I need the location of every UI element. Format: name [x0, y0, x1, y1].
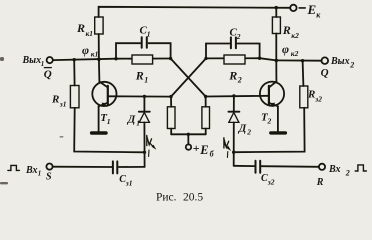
capacitor C2 plates [230, 37, 232, 48]
top supply rail wire [99, 7, 291, 17]
transistor T2 base bar [268, 86, 270, 104]
wire Rz1 bottom to trigger line [74, 108, 144, 153]
svg-text:Рис.: Рис. [156, 192, 177, 204]
svg-text:R: R [316, 177, 324, 188]
pulse symbol input 2 [355, 165, 366, 171]
svg-text:φ: φ [282, 42, 289, 56]
terminal Vh2 [319, 164, 325, 170]
svg-text:з1: з1 [59, 99, 67, 108]
svg-text:2: 2 [345, 169, 350, 178]
svg-text:Вых: Вых [330, 56, 350, 67]
terminal Vh1 [46, 164, 52, 170]
wire D2 anode down to input node [233, 122, 235, 165]
capacitor C1 loop left side [116, 43, 140, 59]
svg-text:E: E [307, 2, 317, 17]
node dot D2 top [232, 94, 235, 97]
resistor Rk2 [272, 17, 280, 34]
resistor Rb2 [205, 97, 207, 107]
capacitor C2 loop right side [238, 44, 260, 59]
wire T2 collector up [275, 60, 277, 81]
node on rail for Rk2 [275, 6, 278, 9]
node dot D2 / Rz2 junction [232, 151, 235, 154]
node dot C1 loop right [169, 57, 172, 60]
capacitor Cz1 plates [112, 161, 114, 173]
wire D1 anode down to input node [143, 122, 145, 166]
svg-text:2: 2 [237, 75, 242, 84]
terminal Vyh1 [47, 57, 53, 63]
input S line left [53, 166, 112, 168]
resistor R2 [224, 55, 245, 64]
transistor T1 collector stroke [100, 82, 108, 88]
input S line right of Cz1 [119, 166, 145, 168]
node dot Rb2 top / diagonal end [204, 95, 207, 98]
svg-text:Вых: Вых [22, 55, 42, 66]
wire main line through R1 [116, 58, 171, 60]
diode D2 triangle [229, 112, 239, 122]
svg-text:к2: к2 [291, 49, 299, 58]
svg-text:1: 1 [38, 170, 42, 178]
svg-text:R: R [228, 68, 237, 82]
svg-text:R: R [135, 68, 144, 82]
wire Rz1 top [73, 60, 75, 86]
capacitor Cz2 plates [255, 161, 257, 173]
wire Rz2 bottom to trigger line [234, 108, 305, 152]
wire to +Eb terminal [187, 134, 189, 144]
diode D1 triangle [139, 112, 149, 122]
ground T1 [92, 131, 106, 134]
diode D2 cathode bar [228, 111, 239, 113]
svg-text:R: R [51, 93, 59, 105]
svg-text:к1: к1 [91, 50, 99, 59]
wire D1 vertical top [143, 96, 145, 111]
spike pulse glyph near D1 [147, 135, 157, 156]
transistor T2 circle [260, 82, 284, 106]
wire cross diagonal from R1 side to T2 base [171, 59, 206, 97]
node dot collector T2 [275, 59, 279, 63]
node dot Rz1 tap [73, 58, 76, 61]
svg-text:Вх: Вх [25, 165, 38, 176]
wire T1 collector up [98, 59, 101, 82]
wire rail to Rk2 [275, 8, 277, 17]
node dot C1 loop left [114, 57, 117, 60]
svg-text:+: + [193, 141, 200, 155]
svg-text:1: 1 [144, 75, 148, 84]
svg-text:к1: к1 [86, 29, 94, 38]
svg-text:1: 1 [147, 30, 151, 39]
svg-text:2: 2 [267, 117, 272, 126]
wire cross diagonal from R2 side to T1 base [171, 58, 206, 96]
resistor Rz1 [70, 86, 79, 108]
resistor R1 [132, 55, 153, 64]
resistor Rz2 [300, 86, 308, 108]
svg-text:2: 2 [236, 32, 241, 41]
wire Rz2 top [302, 61, 305, 86]
node dot Eb tap [187, 133, 190, 136]
svg-text:R: R [307, 88, 315, 100]
svg-text:Q: Q [321, 67, 329, 79]
terminal -Ek [290, 5, 296, 11]
svg-text:Вх: Вх [328, 164, 341, 175]
transistor T1 circle [92, 82, 116, 106]
capacitor C1 loop right side [148, 43, 170, 58]
node dot collector T1 [97, 58, 101, 62]
spike pulse glyph near D2 [224, 138, 231, 158]
transistor T2 emitter stroke with arrow [269, 103, 278, 106]
svg-text:R: R [282, 23, 291, 37]
svg-text:Д: Д [238, 122, 247, 134]
capacitor C2 loop left side [206, 44, 229, 59]
svg-text:φ: φ [82, 43, 89, 57]
wire Rk2 to collector node phi_k2 [275, 34, 277, 61]
svg-text:з2: з2 [314, 94, 322, 103]
capacitor C1 plates [141, 37, 143, 48]
ground T2 [271, 131, 286, 134]
terminal Vyh2 [322, 57, 329, 64]
wire T2 emitter down [277, 106, 279, 131]
svg-text:1: 1 [107, 117, 111, 126]
node dot D1 top [143, 95, 146, 98]
node dot C2 loop right [258, 57, 261, 60]
wire T1 emitter down [98, 106, 100, 132]
transistor T2 collector stroke [269, 82, 276, 88]
node dot C2 loop left [204, 57, 207, 60]
resistor Rk1 [95, 17, 103, 34]
wire T2 base line [206, 95, 269, 98]
svg-text:1: 1 [41, 60, 45, 68]
wire Vyh2 output line [276, 59, 321, 61]
terminal +Eb [186, 144, 191, 149]
transistor T1 base bar [107, 86, 109, 104]
input R line left of Cz2 [234, 165, 255, 167]
pulse symbol input 1 [8, 165, 20, 170]
wire Vyh1 output line [53, 59, 116, 60]
svg-text:з2: з2 [267, 177, 275, 186]
svg-text:з1: з1 [125, 178, 133, 187]
wire D2 vertical top [233, 96, 235, 112]
node dot Rb1 top / diagonal end [169, 95, 172, 98]
svg-text:S: S [46, 171, 52, 182]
wire T1 base line [108, 95, 171, 97]
svg-text:E: E [199, 143, 208, 157]
svg-text:2: 2 [246, 127, 251, 136]
resistor Rb1 [170, 97, 172, 107]
minus dash of Ek [299, 7, 305, 9]
svg-text:Д: Д [127, 113, 136, 125]
wire main line through R2 [206, 57, 260, 59]
wire Rk1 to collector node [98, 34, 100, 59]
svg-text:к2: к2 [291, 31, 299, 40]
svg-text:Q: Q [44, 68, 52, 80]
input R line right [262, 165, 319, 168]
wire C2 loop to phi_k2 node [260, 58, 277, 60]
svg-text:R: R [76, 21, 85, 35]
wire Eb rail [171, 133, 206, 135]
svg-text:1: 1 [136, 118, 140, 127]
svg-text:2: 2 [349, 61, 354, 70]
diode D1 cathode bar [139, 111, 150, 113]
svg-text:20.5: 20.5 [183, 191, 203, 203]
node dot Rz2 tap [301, 59, 304, 62]
transistor T1 emitter stroke with arrow [99, 103, 108, 106]
node dot D1 / Rz1 junction [143, 151, 146, 154]
